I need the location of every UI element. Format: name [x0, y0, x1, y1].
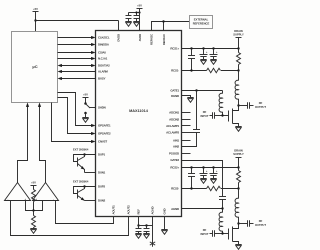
- svg-text:RCS2-: RCS2-: [171, 187, 179, 191]
- wire DOUT/A2: [62, 65, 92, 67]
- capacitor C9 (gate2 series): [219, 197, 226, 213]
- svg-text:MAX11014: MAX11014: [129, 109, 149, 113]
- transistor M2 (LDMOS 2): [229, 224, 239, 245]
- capacitor C6 (gate sense): [182, 91, 201, 147]
- svg-text:N.C./A1: N.C./A1: [98, 57, 108, 61]
- capacitor C11 (bulk 2): [200, 168, 208, 179]
- svg-text:CNVST: CNVST: [98, 140, 107, 144]
- resistor R2 (lower divider): [32, 211, 36, 229]
- op-amp A2: [33, 183, 59, 202]
- svg-text:+5V: +5V: [83, 93, 88, 97]
- svg-text:CS/A0: CS/A0: [98, 51, 106, 55]
- svg-text:SUPPLY: SUPPLY: [233, 152, 244, 156]
- node (gate2 tap): [221, 207, 223, 209]
- capacitor C7 (RF input coupling 1): [210, 112, 229, 118]
- capacitor C14 (RF output coupling 2): [248, 220, 254, 226]
- svg-text:CLK/SCL: CLK/SCL: [98, 36, 110, 40]
- svg-text:DXN2: DXN2: [98, 199, 106, 203]
- svg-text:RF: RF: [259, 219, 263, 223]
- wire comparator A out to uC: [18, 107, 28, 183]
- pin labels bottom row: [112, 205, 167, 215]
- wire ACLAMP1 stub: [182, 125, 191, 127]
- svg-text:+5V: +5V: [137, 4, 142, 8]
- node RCS2+ junctions: [190, 166, 192, 168]
- inductor L4 (drain choke 2): [235, 189, 238, 224]
- ground (C2): [133, 22, 139, 27]
- wire ACLAMP2 stub: [182, 132, 194, 134]
- svg-text:RF: RF: [203, 228, 207, 232]
- svg-text:INPUT: INPUT: [200, 114, 208, 118]
- svg-text:SUPPLY: SUPPLY: [233, 32, 244, 36]
- resistor R4 (RCS1- series): [207, 68, 221, 72]
- switch S1: [84, 102, 90, 114]
- svg-text:+5V: +5V: [31, 181, 36, 185]
- wire divider node: [33, 202, 35, 211]
- ground (switch): [82, 114, 88, 123]
- svg-text:PGOOD: PGOOD: [169, 152, 179, 156]
- svg-text:DXN1: DXN1: [98, 171, 106, 175]
- wire RCS1+: [182, 48, 239, 50]
- wire ADCIN1 stub: [182, 112, 191, 114]
- wire SHDN: [90, 107, 96, 109]
- wire DGND bottom: [164, 217, 166, 230]
- svg-text:AVDD: AVDD: [138, 34, 142, 41]
- node (REFDAC tap): [162, 20, 164, 22]
- svg-text:AIN2: AIN2: [173, 145, 180, 149]
- svg-text:DRAIN: DRAIN: [234, 148, 243, 152]
- svg-text:AOUT1: AOUT1: [112, 205, 116, 215]
- capacitor C5 (bulk): [210, 49, 218, 60]
- pin labels top row: [117, 33, 166, 45]
- svg-text:RF: RF: [259, 101, 263, 105]
- inductor L2 (gate choke 1): [219, 91, 222, 116]
- svg-text:AOUT2: AOUT2: [127, 205, 131, 215]
- ground (C12): [210, 179, 216, 184]
- svg-text:EXTERNAL: EXTERNAL: [194, 18, 209, 22]
- wire RF output 1: [239, 105, 248, 107]
- node (GATE1 branch): [195, 89, 197, 91]
- wire GATE2: [182, 161, 223, 197]
- capacitor C12 (bulk 2): [210, 168, 218, 179]
- wire comparator A input from AOUT2: [11, 201, 129, 236]
- svg-text:DGND: DGND: [171, 94, 179, 98]
- wire REF bypass rail: [139, 225, 153, 227]
- wire comparator B input from AOUT1: [56, 201, 114, 224]
- capacitor C16 (REF bypass): [144, 226, 150, 234]
- svg-text:EXT 2N3904: EXT 2N3904: [73, 148, 89, 152]
- pin labels left column: [98, 36, 111, 203]
- resistor R5 (RSENSE2): [237, 168, 241, 189]
- supply DRAIN SUPPLY 2: [233, 148, 244, 167]
- capacitor C2 (AVDD bypass): [134, 13, 140, 22]
- svg-text:INPUT: INPUT: [200, 232, 208, 236]
- node (AVDD rail): [138, 11, 140, 13]
- wire RF output 2: [239, 223, 248, 225]
- svg-text:-: -: [53, 198, 54, 201]
- svg-text:RCS1+: RCS1+: [170, 47, 179, 51]
- resistor R1 (upper divider): [32, 190, 36, 202]
- svg-text:OUTPUT: OUTPUT: [255, 105, 266, 109]
- node (junction uC supply rail): [34, 19, 36, 21]
- wire RCS1-: [182, 70, 207, 72]
- external reference box: [190, 16, 213, 29]
- capacitor C13 (RF input coupling 2): [210, 230, 229, 236]
- svg-text:REFADC: REFADC: [150, 33, 154, 45]
- wire bypass rail: [129, 12, 140, 14]
- svg-text:AIN1: AIN1: [173, 139, 180, 143]
- wire REFADC: [152, 22, 190, 31]
- node (drain node 1): [237, 104, 239, 106]
- svg-text:-: -: [8, 198, 9, 201]
- capacitor C1 (DVDD bypass): [126, 13, 132, 22]
- svg-text:GATE2: GATE2: [170, 158, 179, 162]
- ground (C4): [200, 60, 206, 65]
- wire REF pin: [138, 217, 140, 226]
- svg-text:ACLAMP1: ACLAMP1: [166, 124, 179, 128]
- ground (M2 source): [235, 245, 241, 250]
- capacitor C4 (bulk): [200, 49, 208, 60]
- ground (C11): [200, 179, 206, 184]
- ground (C5): [210, 60, 216, 65]
- inductor L3 (gate choke 2): [219, 212, 222, 233]
- svg-text:EXT 2N3904: EXT 2N3904: [73, 180, 89, 184]
- svg-text:DIN/SDA: DIN/SDA: [98, 43, 110, 47]
- svg-text:ALARM: ALARM: [98, 70, 108, 74]
- node (gate node 1): [221, 114, 223, 116]
- svg-text:BUSY: BUSY: [98, 77, 106, 81]
- node RCS1+ junctions: [190, 47, 192, 49]
- ground (C15): [135, 234, 141, 239]
- svg-text:DXP1: DXP1: [98, 153, 105, 157]
- svg-text:ACLAMP2: ACLAMP2: [166, 131, 179, 135]
- microcontroller U2: [12, 32, 58, 103]
- wire ALARM: [62, 71, 96, 73]
- supply +5V (AVDD): [137, 4, 143, 31]
- wire PGOOD stub: [182, 153, 191, 155]
- svg-text:DXP2: DXP2: [98, 185, 105, 189]
- node divider: [32, 209, 34, 211]
- inductor L1 (drain choke 1): [235, 71, 238, 106]
- wire OPSAFE2: [58, 98, 92, 134]
- supply +5V (uC rail): [33, 7, 39, 31]
- svg-text:GND: GND: [163, 208, 167, 214]
- wire ADCIN2 stub: [182, 119, 191, 121]
- wire DIN/SDA: [58, 44, 92, 46]
- wire comparator B out to uC: [40, 107, 46, 183]
- wire CS/A0: [58, 52, 92, 54]
- svg-text:RCS2+: RCS2+: [170, 166, 179, 170]
- node (C16 tap): [145, 224, 147, 226]
- wire AGND2 pin: [182, 208, 223, 210]
- wire SCLK/SCL: [58, 37, 92, 39]
- svg-text:REFDAC: REFDAC: [162, 33, 166, 45]
- svg-text:DVDD: DVDD: [117, 34, 121, 42]
- svg-text:DOUT/A2: DOUT/A2: [98, 64, 110, 68]
- transistor Q1: [74, 153, 96, 172]
- capacitor C15 (REF bypass): [136, 226, 142, 234]
- node RCS2- junctions: [190, 187, 192, 189]
- svg-text:+5V: +5V: [33, 7, 38, 11]
- svg-text:RF: RF: [203, 110, 207, 114]
- wire DGND stub: [182, 96, 191, 98]
- wire AIN1 stub: [182, 140, 191, 142]
- wire N.C./A1: [58, 58, 92, 60]
- resistor R6 (RCS2- series): [207, 186, 221, 190]
- ground (C1): [125, 22, 131, 27]
- node (C2 tap): [135, 11, 137, 13]
- node RCS1- junctions: [190, 69, 192, 71]
- wire AGND star: [152, 217, 154, 241]
- wire OPSAFE1: [58, 93, 92, 126]
- svg-text:AGND: AGND: [171, 207, 179, 211]
- svg-text:ADCIN2: ADCIN2: [169, 118, 179, 122]
- capacitor C10 (sense filter 2): [188, 168, 195, 189]
- wire BUSY: [62, 78, 96, 80]
- supply +5V (divider): [31, 181, 37, 190]
- svg-text:SHDN: SHDN: [98, 106, 106, 110]
- svg-text:GATE1: GATE1: [170, 89, 179, 93]
- wire DVDD drop: [118, 21, 120, 31]
- node (REF): [137, 224, 139, 226]
- supply DRAIN SUPPLY 1: [233, 29, 244, 49]
- IC U1 MAX11014: [96, 31, 182, 217]
- ground (DGND bottom): [161, 230, 167, 235]
- resistor R3 (RSENSE1): [237, 49, 241, 71]
- capacitor C8 (RF output coupling 1): [248, 102, 254, 108]
- svg-text:ADCIN1: ADCIN1: [169, 111, 179, 115]
- node (gate node 2): [221, 232, 223, 234]
- ground (C16): [143, 234, 149, 239]
- pin labels right column: [166, 47, 179, 211]
- svg-text:µC: µC: [32, 64, 37, 69]
- wire GATE1: [182, 90, 223, 92]
- svg-text:OPSAFE2: OPSAFE2: [98, 132, 111, 136]
- ground (DGND): [187, 98, 193, 103]
- svg-text:OUTPUT: OUTPUT: [255, 223, 266, 227]
- svg-text:REFERENCE: REFERENCE: [193, 21, 210, 25]
- transistor Q2: [74, 185, 96, 200]
- star ground: [150, 240, 155, 246]
- transistor M1 (LDMOS 1): [229, 106, 239, 127]
- svg-text:DRAIN: DRAIN: [234, 29, 243, 33]
- svg-text:AGND: AGND: [151, 207, 155, 215]
- svg-text:REF: REF: [137, 209, 141, 215]
- op-amp A1: [5, 183, 31, 202]
- ground (M1 source): [235, 127, 241, 132]
- capacitor C3 (sense filter): [188, 49, 195, 71]
- wire REFDAC: [163, 22, 165, 31]
- wire RCS2+: [182, 167, 239, 169]
- supply +5V (SHDN switch): [83, 93, 89, 104]
- wire RCS2-: [182, 188, 207, 190]
- svg-text:OPSAFE1: OPSAFE1: [98, 124, 111, 128]
- node (drain node 2): [237, 222, 239, 224]
- wire +5V rail to DVDD: [36, 20, 119, 22]
- ground (divider): [30, 229, 36, 234]
- svg-text:RCS1-: RCS1-: [171, 69, 179, 73]
- wire CNVST: [52, 103, 92, 142]
